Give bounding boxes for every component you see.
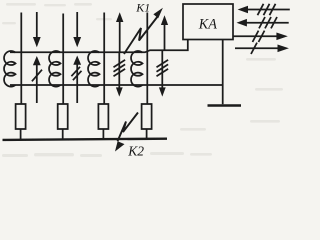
svg-text:К1: К1 xyxy=(135,0,150,14)
svg-text:КА: КА xyxy=(198,17,217,33)
svg-text:К2: К2 xyxy=(127,143,144,158)
